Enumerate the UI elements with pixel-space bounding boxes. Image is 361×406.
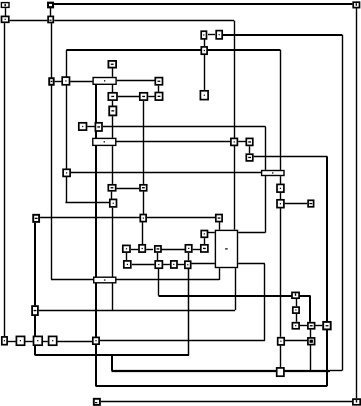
wire U1-box9 vert: [112, 85, 114, 92]
wire box18-U2 vert: [112, 116, 114, 137]
wire box12-box13: [208, 34, 215, 36]
wire net2 seg b: [54, 20, 234, 22]
pin P9: [155, 78, 162, 85]
wire net5 right vert x356: [356, 9, 358, 399]
pin P13: [201, 31, 206, 39]
pin P15: [201, 47, 207, 54]
pin P24: [277, 184, 284, 192]
pin P56: [277, 368, 284, 376]
wire bus corner x310 vert: [309, 296, 311, 322]
wire bus y295 thick: [159, 295, 311, 297]
wire box44-U5: [192, 263, 215, 265]
wire box14-box15 vert: [204, 55, 206, 90]
wire bus y370 thick: [112, 370, 331, 372]
pin P37: [185, 245, 191, 252]
wire box43-box44: [178, 264, 184, 266]
wire net5 y401: [101, 401, 352, 403]
wire box22-corner: [254, 156, 328, 158]
wire box52-box53: [25, 341, 32, 343]
wire box53-box54: [43, 341, 48, 343]
pin P58: [353, 399, 360, 405]
pin P16: [200, 91, 208, 100]
wire bus y355 thick: [35, 354, 189, 356]
wire box1-box3 vert: [5, 8, 7, 15]
wire box57-bus vert: [310, 345, 312, 370]
pin P10: [108, 93, 117, 100]
wire bus jog x111 vert: [111, 355, 113, 370]
pin P18: [95, 123, 102, 131]
pin P39: [124, 261, 131, 268]
wire box7b-U1: [70, 81, 92, 83]
wire box2-box4 vert: [50, 8, 52, 16]
wire box16-box17: [87, 126, 94, 128]
pin P34: [123, 245, 130, 252]
pin P42: [185, 261, 191, 268]
wire box42-bus vert: [158, 269, 160, 296]
component U1: [93, 78, 116, 85]
pin P57: [94, 399, 100, 405]
pin P54: [278, 338, 285, 345]
wire box36-box41 vert: [126, 253, 128, 260]
wire net2 seg a: [10, 20, 48, 22]
wire box38-box39: [161, 249, 185, 251]
pin P6: [108, 61, 116, 68]
wire box56-box57: [285, 340, 307, 342]
wire box12-box14 vert: [204, 39, 206, 46]
wire bus x327 vert: [326, 156, 328, 386]
wire box49-box57 vert: [310, 330, 312, 337]
pin P27: [108, 185, 115, 191]
wire corner-U3 vert: [265, 127, 267, 170]
wire box30-U4 vert: [112, 208, 114, 277]
wire net4 bus: [66, 49, 280, 51]
pin P8: [62, 77, 69, 85]
wire box34-U5: [208, 232, 215, 234]
wire box46-box48 vert: [296, 314, 298, 322]
wire box55-corner y340: [100, 340, 265, 342]
pin P1: [1, 3, 9, 8]
wire box3-box51 vert: [4, 23, 6, 336]
wire box41-box42: [132, 264, 154, 266]
wire box26-box56 vert: [280, 209, 282, 337]
wire U5-corner right: [238, 232, 265, 234]
wire box29-box32 vert: [143, 192, 145, 214]
pin P19: [109, 106, 116, 115]
pin P45: [32, 306, 38, 315]
pin P2: [48, 3, 53, 8]
wire corner y279 left: [51, 279, 93, 281]
component U5: [215, 230, 237, 267]
wire net4 vert: [280, 50, 282, 170]
pin P21: [246, 138, 253, 145]
wire box21-box22 vert: [249, 146, 251, 153]
wire box10-box11: [148, 96, 154, 98]
wire box48-box49: [300, 325, 307, 327]
wire U5-corner y279 vert: [219, 268, 221, 280]
wire U2-box28 vert: [112, 146, 114, 184]
component U4: [94, 277, 116, 283]
pin P33: [201, 231, 207, 238]
wire box39-box40: [193, 249, 200, 251]
pin P41: [171, 261, 177, 268]
pin P29: [110, 199, 117, 207]
wire box47-box53 vert thick: [34, 316, 36, 336]
wire net1 top bus: [54, 3, 353, 5]
pin P4: [48, 16, 53, 22]
wire bus y386 thick: [96, 385, 328, 387]
pin P20: [231, 138, 238, 145]
component U3: [262, 171, 284, 176]
pin P22: [246, 154, 253, 161]
pin P14: [216, 31, 222, 39]
wire box51-box52: [7, 341, 16, 343]
wire corner-U5 vert x235: [235, 268, 237, 310]
wire corner-U3 bottom vert: [265, 170, 267, 233]
pin P11: [140, 93, 148, 100]
wire net3 bus: [223, 34, 342, 36]
pin P26: [308, 200, 314, 207]
pin P55: [308, 338, 315, 345]
pin P35: [139, 245, 145, 252]
pin P3: [2, 16, 9, 22]
wire box34-box40 vert: [204, 238, 206, 245]
wire box53-corner vert thick: [34, 346, 36, 355]
wire box7a-box7b: [55, 81, 62, 83]
pin P28: [140, 185, 147, 191]
wire box20-box21: [238, 141, 245, 143]
wire box9-box10: [118, 96, 139, 98]
wire box42-box43: [163, 264, 170, 266]
pin P48: [323, 322, 331, 330]
pin P23: [63, 169, 70, 176]
pin P7: [49, 78, 54, 85]
pin P25: [277, 200, 284, 208]
pin P40: [155, 261, 162, 268]
wire box9-box18 vert: [112, 101, 114, 106]
wire net3 bus vert: [342, 35, 344, 371]
pin P5: [353, 2, 359, 7]
wire box31-box47 vert thick: [34, 223, 36, 305]
pin P53: [93, 337, 99, 344]
wire box49-box50: [315, 325, 322, 327]
wire box44 vert x188: [188, 269, 190, 356]
wire box47-corner y310: [39, 310, 235, 312]
pin P44: [293, 307, 299, 313]
wire box25-box26 vert: [280, 193, 282, 199]
wire box24-U3: [71, 172, 261, 174]
wire corner vert x265: [264, 264, 266, 341]
wire U5-corner y264: [238, 263, 265, 265]
wire U1 bus vert x96 thick: [95, 85, 97, 386]
pin P31: [140, 215, 146, 222]
component U2: [93, 138, 116, 145]
wire box17-corner: [103, 126, 266, 128]
wire U4-corner y279 right: [117, 279, 220, 281]
wire U3-box25 vert: [280, 176, 282, 183]
wire corner-box30: [65, 202, 109, 204]
wire box31-box32: [40, 217, 139, 219]
wire x51 vert: [51, 23, 53, 279]
wire box26-box27: [285, 203, 308, 205]
pin P17: [79, 123, 87, 130]
wire corner-box30 vert: [66, 50, 68, 202]
wire box56-box58 vert: [280, 346, 282, 367]
pin P50: [16, 336, 24, 345]
pin P30: [33, 215, 39, 222]
wire box36-box37: [131, 249, 138, 251]
wire box33-U5 vert: [219, 223, 221, 230]
pin P49: [2, 337, 7, 345]
wire box8-box11 vert: [158, 86, 160, 92]
wire box39-box44 vert: [188, 253, 190, 260]
wire box28-box30 vert: [111, 192, 113, 199]
pin P47: [308, 323, 315, 329]
wire U1-box8: [117, 80, 155, 82]
wire U2-box20: [117, 141, 231, 143]
pin P38: [201, 245, 208, 252]
pin P51: [34, 336, 43, 345]
pin P32: [216, 215, 222, 222]
wire box10-box29 vert: [143, 101, 145, 184]
wire box38-box42 vert: [157, 253, 159, 260]
wire net2 seg c vert: [234, 21, 236, 230]
wire box54-box55: [58, 341, 92, 343]
pin P46: [292, 323, 299, 329]
wire bus y370 thin end: [330, 370, 342, 372]
pin P36: [155, 246, 161, 252]
pin P52: [49, 336, 57, 345]
wire U4-y310 vert: [112, 284, 114, 311]
pin P12: [155, 93, 162, 101]
wire box6-U1 vert: [112, 69, 114, 77]
wire box32-box33: [147, 217, 215, 219]
wire box28-box29: [117, 188, 140, 190]
wire box45-box46 vert: [296, 299, 298, 306]
wire box32-box37 vert: [142, 223, 144, 245]
wire box37-box38: [146, 249, 153, 251]
pin P43: [292, 292, 299, 298]
